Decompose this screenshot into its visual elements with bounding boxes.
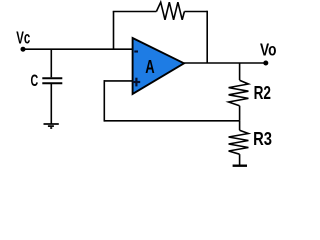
ground — [44, 124, 59, 128]
svg-text:C: C — [31, 71, 39, 90]
svg-text:R2: R2 — [254, 83, 271, 103]
wire output — [184, 62, 266, 64]
wire R3 top lead — [239, 121, 241, 130]
wire feedback bottom horizontal — [104, 120, 239, 122]
wire feedback top right — [184, 11, 207, 13]
svg-text:R3: R3 — [253, 129, 272, 149]
ground terminal bar — [233, 164, 247, 166]
wire capacitor bottom lead — [50, 83, 52, 123]
svg-text:Vo: Vo — [260, 40, 277, 60]
resistor R2 — [229, 80, 249, 105]
wire capacitor top lead — [50, 49, 52, 77]
wire non-inverting input lead — [104, 80, 133, 82]
wire R2 top lead — [239, 63, 241, 80]
node Vo — [263, 61, 268, 66]
svg-text:A: A — [145, 57, 154, 77]
wire R3 bottom lead — [239, 154, 241, 165]
node Vc — [21, 47, 26, 52]
resistor R1 feedback — [156, 2, 184, 20]
wire non-inverting loop vertical — [103, 80, 105, 122]
capacitor C — [42, 78, 62, 83]
wire Vc to inverting input — [22, 48, 133, 50]
svg-text:Vc: Vc — [16, 27, 30, 47]
wire R2 bottom lead — [239, 106, 241, 121]
wire feedback left vertical — [113, 12, 115, 50]
op-amp A inverting pin mark — [134, 50, 138, 52]
op-amp A non-inverting pin mark — [133, 78, 141, 87]
wire feedback right vertical — [206, 11, 208, 63]
resistor R3 — [229, 130, 249, 154]
op-amp A — [133, 38, 184, 94]
wire feedback top left — [113, 11, 157, 13]
